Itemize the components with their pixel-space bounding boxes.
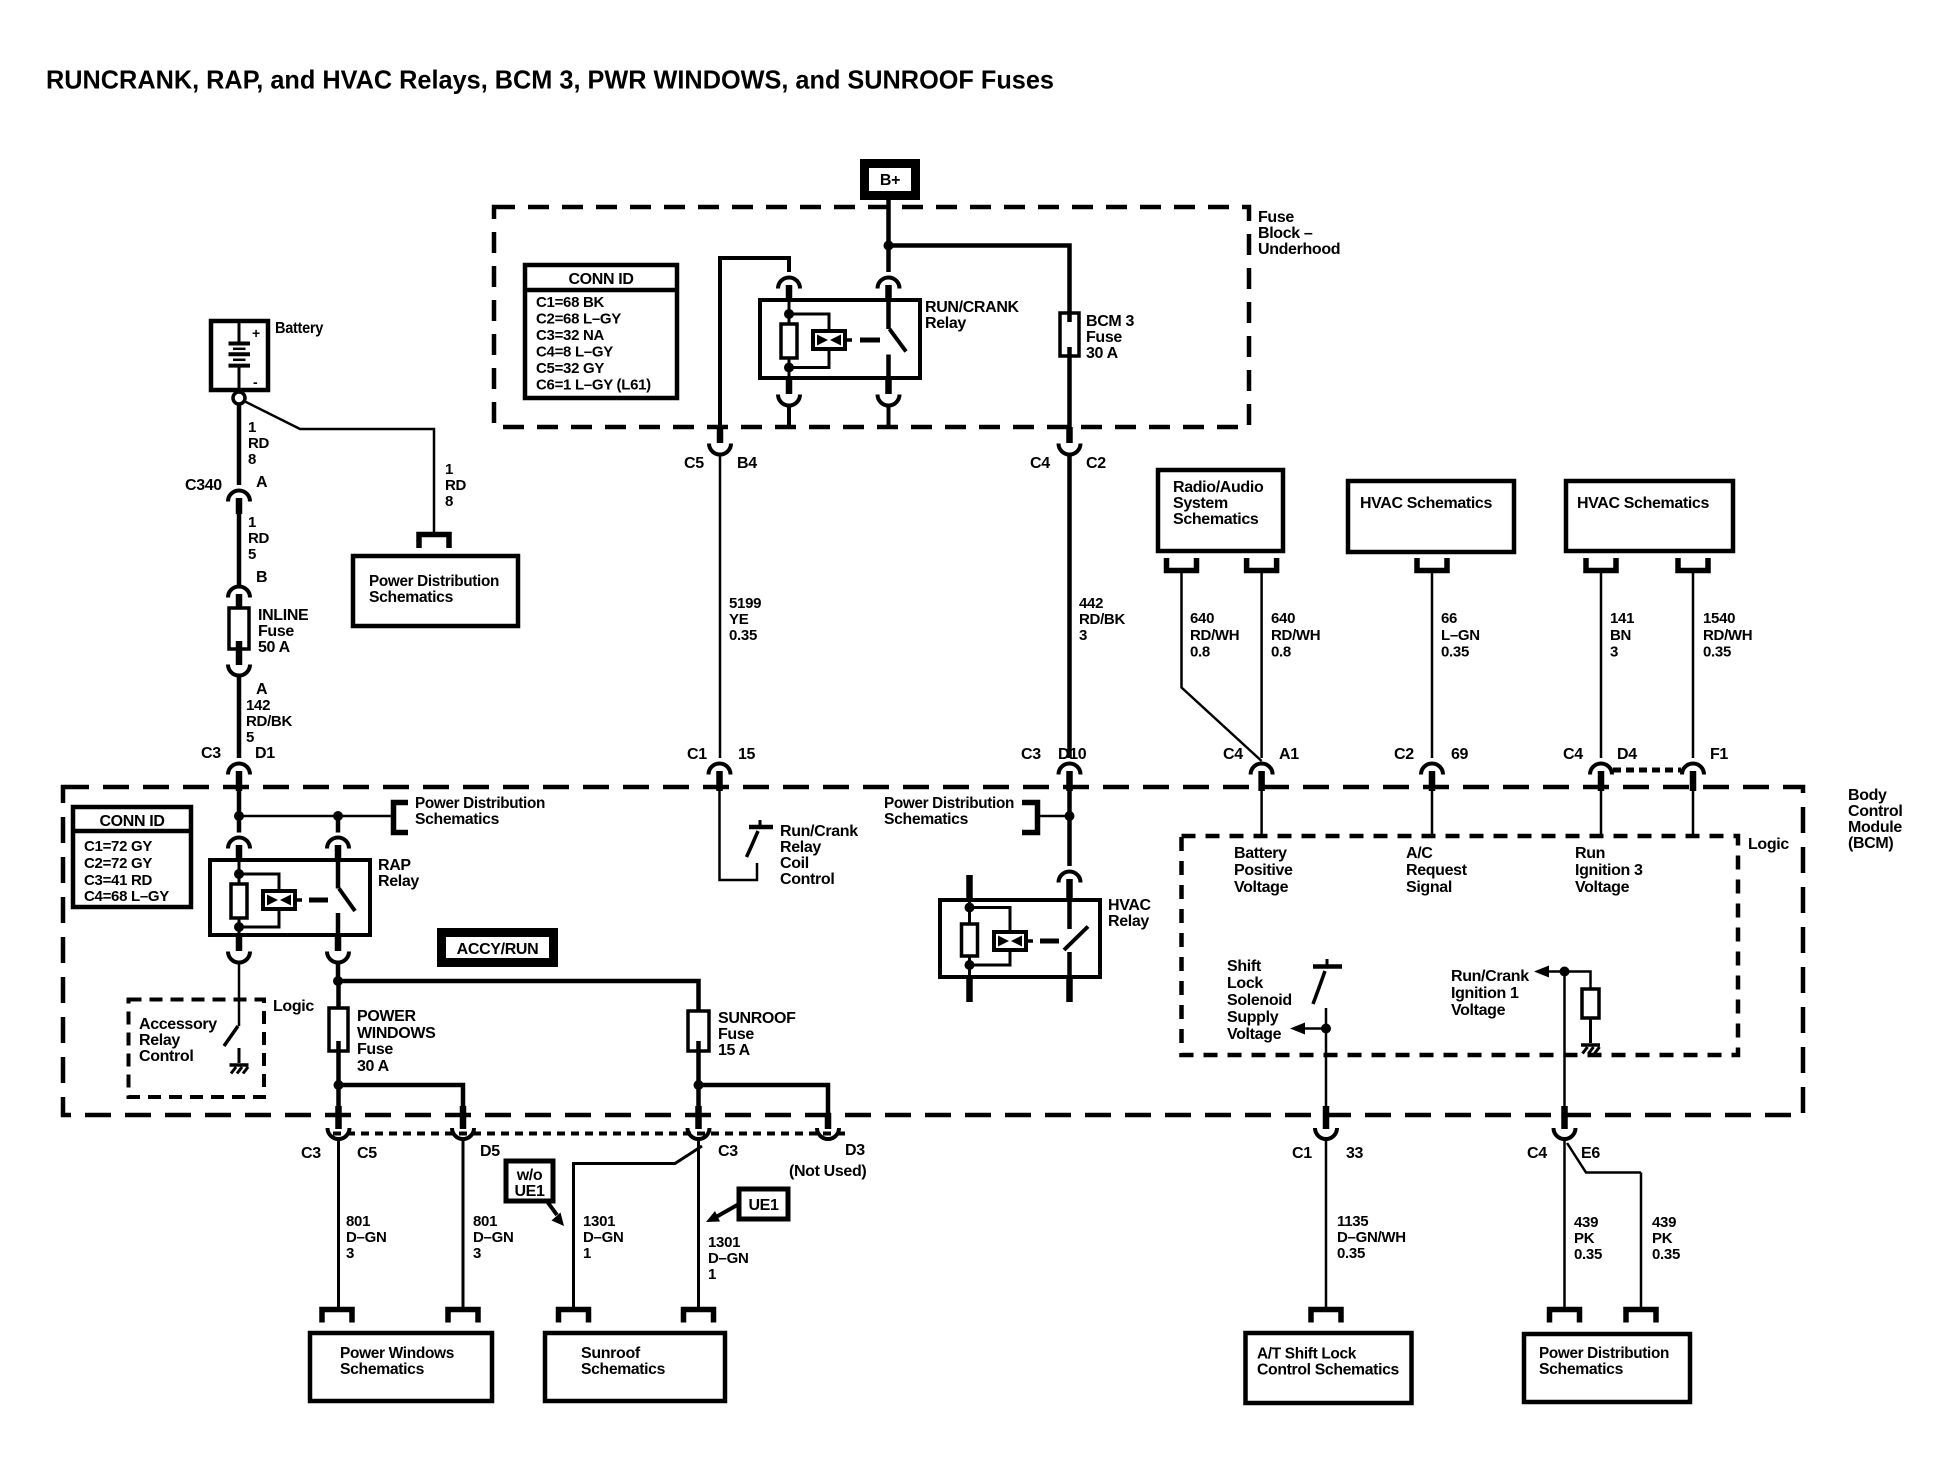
svg-text:UE1: UE1: [514, 1183, 545, 1200]
svg-text:WINDOWS: WINDOWS: [357, 1025, 436, 1042]
svg-text:Control: Control: [139, 1048, 193, 1065]
power symbol ACCY/RUN: [437, 928, 558, 967]
switch shift lock: [1313, 964, 1342, 969]
junction coil bottom: [784, 363, 794, 373]
wire to D5: [339, 1085, 464, 1107]
svg-text:1: 1: [248, 419, 256, 436]
box Power Distribution Schematics (top): [353, 556, 518, 626]
svg-text:Logic: Logic: [273, 998, 314, 1015]
svg-text:Schematics: Schematics: [581, 1361, 665, 1378]
svg-text:3: 3: [1610, 644, 1618, 661]
svg-text:Fuse: Fuse: [1258, 209, 1294, 226]
relay RAP box: [210, 860, 370, 935]
svg-text:PK: PK: [1574, 1230, 1595, 1247]
bracket hvac2 right: [1678, 558, 1708, 571]
svg-text:Control: Control: [1848, 803, 1902, 820]
resistor HVAC coil: [962, 924, 978, 956]
svg-text:C2=72 GY: C2=72 GY: [84, 855, 152, 872]
junction ACCY/RUN: [333, 976, 343, 986]
svg-text:Body: Body: [1848, 787, 1887, 804]
svg-text:Module: Module: [1848, 819, 1902, 836]
svg-text:C5=32 GY: C5=32 GY: [536, 360, 604, 377]
svg-text:Power Distribution: Power Distribution: [415, 795, 545, 812]
svg-text:Fuse: Fuse: [258, 623, 294, 640]
svg-text:SUNROOF: SUNROOF: [718, 1010, 796, 1027]
wire 141 BN: [1600, 571, 1603, 759]
resistor run/crank coil: [781, 324, 797, 358]
svg-text:C1=72 GY: C1=72 GY: [84, 838, 152, 855]
bracket A/T shift lock: [1311, 1310, 1341, 1323]
svg-text:0.35: 0.35: [1441, 644, 1469, 661]
svg-text:D4: D4: [1617, 746, 1637, 763]
svg-text:HVAC Schematics: HVAC Schematics: [1360, 495, 1492, 512]
junction power distribution tap: [1065, 811, 1075, 821]
svg-text:RD/BK: RD/BK: [1079, 611, 1125, 628]
junction hvac coil bottom: [965, 960, 975, 970]
wire 66 L-GN: [1431, 571, 1434, 759]
svg-text:w/o: w/o: [516, 1167, 543, 1184]
svg-text:0.8: 0.8: [1190, 644, 1210, 661]
connector C3 (sunroof): [695, 1106, 702, 1129]
connector C3 C5: [335, 1106, 342, 1129]
box A/T Shift Lock Control Schematics: [1246, 1333, 1412, 1403]
svg-text:C2: C2: [1086, 455, 1106, 472]
svg-text:0.35: 0.35: [1574, 1246, 1602, 1263]
svg-text:Schematics: Schematics: [340, 1361, 424, 1378]
dotted link D4 to F1: [1613, 768, 1681, 773]
svg-text:5: 5: [246, 729, 254, 746]
connector C4 C2: [1066, 427, 1073, 443]
svg-text:Signal: Signal: [1406, 879, 1452, 896]
off-page bracket power distribution: [419, 535, 449, 549]
logic dashed box: [1182, 836, 1739, 1055]
BCM dashed boundary: [63, 787, 1803, 1115]
arrow shift lock supply: [1302, 1027, 1326, 1030]
resistor RAP coil: [231, 884, 247, 918]
run/crank coil wire bottom: [788, 358, 791, 378]
box Radio/Audio System Schematics: [1158, 470, 1283, 551]
svg-text:Battery: Battery: [1234, 845, 1287, 862]
svg-text:C4: C4: [1030, 455, 1050, 472]
wire A1 into BCM: [1260, 791, 1263, 836]
svg-text:RD: RD: [248, 530, 270, 547]
svg-text:C4=68 L–GY: C4=68 L–GY: [84, 888, 169, 905]
off-page bracket power distribution (RAP): [394, 803, 409, 833]
svg-text:CONN ID: CONN ID: [568, 271, 633, 288]
off-page bracket power distribution (HVAC): [1038, 815, 1070, 818]
wire 640 RD/WH left: [1182, 571, 1262, 762]
bracket power windows C5: [322, 1310, 352, 1323]
svg-text:C340: C340: [185, 477, 222, 494]
svg-text:C3=32 NA: C3=32 NA: [536, 327, 605, 344]
svg-text:3: 3: [346, 1245, 354, 1262]
connector C4 E6: [1561, 1106, 1568, 1129]
svg-text:C3: C3: [301, 1145, 321, 1162]
wire F1 into BCM: [1692, 791, 1695, 836]
svg-text:Supply: Supply: [1227, 1009, 1279, 1026]
wire C340 to B: [237, 514, 242, 585]
wire D4 into BCM: [1600, 791, 1603, 836]
svg-text:1: 1: [583, 1245, 591, 1262]
svg-text:801: 801: [346, 1213, 370, 1230]
accessory relay control dashed box: [129, 1000, 265, 1098]
junction coil top: [784, 309, 794, 319]
HVAC relay pin bottom-left bar: [966, 977, 973, 1002]
svg-text:Ignition 1: Ignition 1: [1451, 985, 1519, 1002]
fuse INLINE 50A: [229, 608, 249, 649]
svg-text:INLINE: INLINE: [258, 607, 309, 624]
box Power Distribution Schematics (bottom): [1524, 1334, 1690, 1402]
hvac coil wire bottom: [968, 956, 971, 977]
svg-text:D–GN: D–GN: [346, 1229, 386, 1246]
wire 439 PK left: [1563, 1140, 1566, 1310]
wire C3/D1 down to RAP: [237, 791, 242, 833]
wire BCM3 fuse to C4/C2: [1067, 356, 1072, 427]
wire C3 drop (sunroof): [696, 1085, 701, 1107]
svg-text:640: 640: [1271, 610, 1295, 627]
wire 801 D-GN (C5): [337, 1140, 340, 1310]
svg-text:Schematics: Schematics: [1539, 1361, 1623, 1378]
wire A to C3/D1: [237, 676, 242, 758]
svg-text:Schematics: Schematics: [369, 589, 453, 606]
svg-text:Schematics: Schematics: [1173, 511, 1259, 528]
bracket radio left: [1167, 558, 1197, 571]
svg-text:D3: D3: [845, 1142, 865, 1159]
junction RAP switch feed: [333, 811, 343, 821]
svg-text:(BCM): (BCM): [1848, 835, 1893, 852]
battery: [211, 321, 268, 390]
connector D5: [460, 1106, 467, 1129]
svg-text:Power Windows: Power Windows: [340, 1345, 454, 1362]
box Power Windows Schematics: [310, 1333, 492, 1401]
svg-text:15: 15: [738, 746, 756, 763]
wire relay bottom-right to boundary: [887, 406, 891, 427]
wire 1301 D-GN UE1: [697, 1140, 700, 1310]
svg-text:System: System: [1173, 495, 1228, 512]
wire 1135 D-GN/WH: [1325, 1140, 1328, 1310]
wire 69 into BCM: [1431, 791, 1434, 836]
switch HVAC relay: [1067, 900, 1072, 929]
svg-text:3: 3: [473, 1245, 481, 1262]
wire relay bottom-left to boundary: [787, 406, 791, 427]
svg-text:RD: RD: [445, 477, 467, 494]
wire shift lock down: [1325, 1008, 1328, 1107]
connector C3 D1: [228, 764, 250, 775]
svg-text:C6=1 L–GY (L61): C6=1 L–GY (L61): [536, 377, 651, 394]
resistor ign1 pulldown: [1582, 989, 1599, 1018]
wire B+ to BCM3 fuse: [889, 246, 1070, 323]
svg-text:Solenoid: Solenoid: [1227, 992, 1292, 1009]
connector F1: [1682, 764, 1704, 775]
rap relay dashed link: [309, 898, 328, 903]
connector C3 D10: [1059, 764, 1081, 775]
svg-text:RD/BK: RD/BK: [246, 713, 292, 730]
relay RUN/CRANK box: [760, 300, 920, 378]
svg-text:Schematics: Schematics: [884, 811, 968, 828]
svg-text:RD/WH: RD/WH: [1271, 627, 1320, 644]
svg-text:C4: C4: [1223, 746, 1243, 763]
svg-text:66: 66: [1441, 610, 1457, 627]
bracket sunroof UE1: [684, 1310, 714, 1323]
switch run/crank relay coil control: [749, 825, 773, 830]
arrow UE1: [716, 1204, 739, 1217]
svg-text:-: -: [253, 374, 258, 390]
svg-text:C5: C5: [684, 455, 704, 472]
svg-text:A/C: A/C: [1406, 845, 1433, 862]
callout box w/o UE1: [506, 1161, 553, 1201]
svg-text:Schematics: Schematics: [415, 811, 499, 828]
wire 640 RD/WH right: [1260, 571, 1263, 759]
svg-text:C2=68 L–GY: C2=68 L–GY: [536, 311, 621, 328]
wire to power windows fuse: [336, 981, 341, 1018]
solenoid RAP: [263, 891, 295, 909]
connector HVAC relay pin top: [1059, 872, 1081, 883]
connector C1 33: [1323, 1106, 1330, 1129]
svg-text:CONN ID: CONN ID: [99, 813, 164, 830]
connector run/crank relay pin top-left: [778, 278, 800, 289]
svg-text:30 A: 30 A: [1086, 345, 1119, 362]
svg-text:5199: 5199: [729, 595, 761, 612]
connector RAP pin bottom-right: [335, 935, 342, 951]
rap coil wire top: [238, 860, 241, 885]
box Sunroof Schematics: [545, 1333, 725, 1401]
svg-text:RD/WH: RD/WH: [1703, 627, 1752, 644]
bracket hvac1: [1417, 558, 1447, 571]
svg-text:Relay: Relay: [925, 315, 966, 332]
wire to power distribution bracket: [239, 815, 394, 818]
svg-text:BN: BN: [1610, 627, 1631, 644]
wire battery to power distribution: [244, 401, 434, 533]
svg-text:D–GN/WH: D–GN/WH: [1337, 1229, 1406, 1246]
connector C4 A1: [1251, 764, 1273, 775]
svg-text:0.8: 0.8: [1271, 644, 1291, 661]
connector run/crank relay pin bottom-left: [786, 378, 793, 394]
svg-text:Voltage: Voltage: [1234, 879, 1289, 896]
svg-text:Voltage: Voltage: [1451, 1002, 1506, 1019]
ground (run/crank ign1): [1589, 1018, 1592, 1043]
svg-text:Request: Request: [1406, 862, 1468, 879]
svg-text:442: 442: [1079, 595, 1103, 612]
switch accessory relay control: [224, 1026, 238, 1046]
wire 801 D-GN (D5): [462, 1140, 465, 1310]
svg-text:A/T Shift Lock: A/T Shift Lock: [1257, 1346, 1356, 1363]
svg-text:1135: 1135: [1337, 1213, 1368, 1230]
HVAC relay pin bottom-right bar: [1066, 977, 1073, 1002]
bracket sunroof w/o UE1: [559, 1310, 589, 1323]
wire 1301 D-GN w/o UE1: [574, 1146, 703, 1310]
svg-text:15 A: 15 A: [718, 1042, 751, 1059]
svg-text:A: A: [256, 681, 268, 698]
junction shift lock arrow: [1321, 1024, 1331, 1034]
wire C1/15 to coil control switch: [720, 791, 758, 880]
connector D3 not used: [825, 1113, 832, 1129]
junction RAP feed: [234, 811, 244, 821]
wire relay coil feed loop: [720, 258, 789, 427]
svg-text:1: 1: [708, 1266, 716, 1283]
wire ign1 resistor branch: [1565, 972, 1591, 990]
svg-text:Fuse: Fuse: [1086, 329, 1122, 346]
svg-text:50 A: 50 A: [258, 639, 291, 656]
svg-text:Relay: Relay: [378, 873, 419, 890]
fuse block underhood dashed boundary: [494, 207, 1249, 427]
junction below sunroof fuse: [694, 1080, 704, 1090]
svg-text:POWER: POWER: [357, 1008, 416, 1025]
svg-text:0.35: 0.35: [1652, 1246, 1680, 1263]
svg-text:Sunroof: Sunroof: [581, 1345, 641, 1362]
wire to D3: [699, 1085, 829, 1113]
connector C1 15: [709, 764, 731, 775]
connector RAP pin top-left: [228, 838, 250, 849]
bracket hvac2 left: [1586, 558, 1616, 571]
svg-text:0.35: 0.35: [1337, 1245, 1365, 1262]
ground (accessory): [238, 1048, 241, 1063]
connector row dotted line: [333, 1132, 850, 1136]
svg-text:5: 5: [248, 546, 256, 563]
svg-text:Relay: Relay: [780, 839, 821, 856]
connector C4 D4: [1590, 764, 1612, 775]
relay HVAC box: [940, 900, 1100, 977]
svg-text:142: 142: [246, 697, 270, 714]
wire C3/D10 to HVAC relay: [1067, 791, 1072, 866]
wire RAP left pin to accessory switch: [238, 964, 241, 1027]
svg-text:33: 33: [1346, 1145, 1364, 1162]
junction rap coil top: [234, 869, 244, 879]
svg-text:L–GN: L–GN: [1441, 627, 1480, 644]
wire B+ down: [886, 199, 891, 272]
CONN ID table (fuse block): [525, 265, 677, 398]
svg-text:C1=68 BK: C1=68 BK: [536, 294, 605, 311]
connector C2 69: [1421, 764, 1443, 775]
solenoid run/crank: [813, 331, 845, 349]
svg-text:Fuse: Fuse: [357, 1041, 393, 1058]
svg-text:HVAC Schematics: HVAC Schematics: [1577, 495, 1709, 512]
svg-text:Power Distribution: Power Distribution: [884, 795, 1014, 812]
svg-text:RUNCRANK, RAP, and HVAC Relays: RUNCRANK, RAP, and HVAC Relays, BCM 3, P…: [46, 65, 1054, 95]
svg-text:Radio/Audio: Radio/Audio: [1173, 479, 1264, 496]
bracket power windows D5: [448, 1310, 478, 1323]
svg-text:C1: C1: [1292, 1145, 1312, 1162]
CONN ID table (BCM): [73, 807, 191, 907]
box HVAC Schematics 2: [1566, 481, 1733, 551]
run/crank solenoid loop: [789, 314, 829, 331]
svg-text:HVAC: HVAC: [1108, 897, 1152, 914]
wire C5 drop: [336, 1085, 341, 1107]
svg-text:640: 640: [1190, 610, 1214, 627]
svg-text:Power Distribution: Power Distribution: [369, 573, 499, 590]
svg-text:1301: 1301: [708, 1234, 740, 1251]
box HVAC Schematics 1: [1348, 481, 1514, 552]
connector C5 B4: [717, 427, 724, 443]
svg-text:BCM 3: BCM 3: [1086, 313, 1134, 330]
svg-text:69: 69: [1451, 746, 1469, 763]
power symbol B+: [860, 159, 920, 200]
svg-text:B: B: [256, 569, 267, 586]
svg-text:Run: Run: [1575, 845, 1605, 862]
svg-text:Fuse: Fuse: [718, 1026, 754, 1043]
junction B+ node: [884, 241, 894, 251]
svg-text:UE1: UE1: [748, 1197, 779, 1214]
svg-text:YE: YE: [729, 611, 749, 628]
svg-text:Run/Crank: Run/Crank: [780, 823, 858, 840]
wire 442 RD/BK: [1067, 456, 1072, 759]
svg-text:(Not Used): (Not Used): [789, 1163, 866, 1180]
junction hvac coil top: [965, 903, 975, 913]
wire RAP right pin down: [336, 964, 341, 982]
switch run/crank relay: [886, 300, 891, 329]
svg-text:C4: C4: [1563, 746, 1583, 763]
svg-text:D–GN: D–GN: [583, 1229, 623, 1246]
wire C4/E6 drop: [1563, 972, 1566, 1108]
svg-text:B4: B4: [737, 455, 757, 472]
connector run/crank relay pin top-right: [878, 278, 900, 289]
svg-text:Underhood: Underhood: [1258, 241, 1340, 258]
wire 1540 RD/WH: [1692, 571, 1695, 759]
svg-text:B+: B+: [880, 172, 900, 189]
svg-text:Voltage: Voltage: [1575, 879, 1630, 896]
svg-text:Control: Control: [780, 871, 834, 888]
svg-text:141: 141: [1610, 610, 1634, 627]
svg-text:Battery: Battery: [275, 320, 323, 337]
hvac relay dashed link: [1040, 939, 1059, 944]
svg-text:C3=41 RD: C3=41 RD: [84, 872, 153, 889]
svg-text:439: 439: [1652, 1214, 1676, 1231]
svg-text:Logic: Logic: [1748, 836, 1789, 853]
svg-text:C2: C2: [1394, 746, 1414, 763]
arrow w/o UE1: [546, 1200, 557, 1215]
svg-text:Coil: Coil: [780, 855, 809, 872]
svg-text:Relay: Relay: [1108, 913, 1149, 930]
svg-text:1: 1: [445, 461, 453, 478]
hvac solenoid loop: [970, 908, 1011, 933]
svg-text:PK: PK: [1652, 1230, 1673, 1247]
rap solenoid loop: [239, 874, 279, 891]
connector RAP pin bottom-left: [236, 935, 243, 951]
svg-text:C4=8 L–GY: C4=8 L–GY: [536, 344, 613, 361]
bracket radio right: [1247, 558, 1277, 571]
junction below power windows fuse: [334, 1080, 344, 1090]
svg-text:C5: C5: [357, 1145, 377, 1162]
svg-text:Ignition 3: Ignition 3: [1575, 862, 1643, 879]
hvac coil wire top: [968, 900, 971, 925]
run/crank relay dashed link: [860, 338, 880, 343]
connector B: [228, 587, 250, 598]
fuse POWER WINDOWS 30A: [329, 1008, 348, 1051]
wire 439 PK right: [1567, 1143, 1641, 1173]
svg-text:F1: F1: [1710, 746, 1728, 763]
bracket power distribution right: [1626, 1310, 1656, 1323]
svg-text:Voltage: Voltage: [1227, 1026, 1282, 1043]
solenoid HVAC: [994, 932, 1026, 950]
svg-text:8: 8: [445, 493, 453, 510]
svg-text:1301: 1301: [583, 1213, 615, 1230]
svg-text:Run/Crank: Run/Crank: [1451, 968, 1529, 985]
svg-text:D5: D5: [480, 1143, 500, 1160]
wire RAP right pin feed: [336, 816, 341, 833]
svg-text:Lock: Lock: [1227, 975, 1263, 992]
connector A below fuse: [228, 665, 250, 676]
svg-text:D–GN: D–GN: [473, 1229, 513, 1246]
svg-text:3: 3: [1079, 627, 1087, 644]
svg-text:0.35: 0.35: [1703, 644, 1731, 661]
svg-text:C4: C4: [1527, 1145, 1547, 1162]
svg-text:+: +: [252, 325, 260, 341]
svg-text:Positive: Positive: [1234, 862, 1293, 879]
run/crank coil wire top: [788, 300, 791, 325]
svg-text:Shift: Shift: [1227, 958, 1262, 975]
svg-text:C3: C3: [1021, 746, 1041, 763]
svg-text:C1: C1: [687, 746, 707, 763]
svg-text:Power Distribution: Power Distribution: [1539, 1345, 1669, 1362]
